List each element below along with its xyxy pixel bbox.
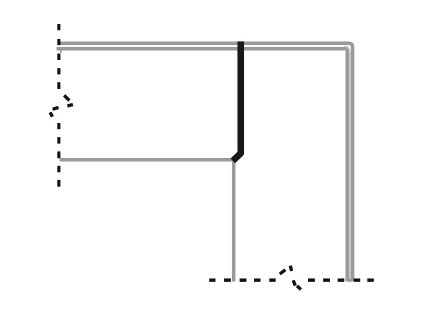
wire: bottom horizontal dashed line, right dashes xyxy=(308,278,374,281)
wire: left vertical dashed line, upper dashes xyxy=(57,24,60,89)
wire: bottom horizontal dashed line, left dashes xyxy=(209,278,276,281)
wire: left vertical dashed line, lower dashes xyxy=(57,123,60,187)
wire: right double line inner vertical thickening xyxy=(345,50,349,280)
wire: top horizontal double line, upper run xyxy=(60,43,353,281)
wire: top horizontal double line, lower run xyxy=(57,49,348,281)
wire: right double line inner gap shading xyxy=(349,53,351,280)
wire: middle horizontal gray line xyxy=(60,158,234,161)
wire: thick black bent conductor xyxy=(233,41,241,160)
wire: end-cap stub of lower run xyxy=(60,50,62,53)
wire: left break symbol dashes xyxy=(50,95,73,116)
node: rounded bottom tip of right double line xyxy=(345,279,354,282)
wire: bottom break symbol dashes xyxy=(280,266,301,290)
wire: corner gap shading arc xyxy=(344,46,350,53)
wire: middle vertical gray line xyxy=(232,158,236,281)
